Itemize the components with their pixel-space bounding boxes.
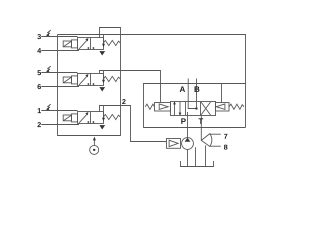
enclosure valve block left — [58, 35, 121, 136]
wire V1 exhaust line with down arrow — [103, 35, 105, 44]
label A — [180, 86, 185, 92]
spring right DV — [229, 104, 244, 109]
valve body V1 — [78, 38, 104, 50]
line port 4 — [41, 50, 79, 52]
enclosure main valve right — [144, 84, 246, 128]
spring V3 — [104, 114, 121, 119]
DV centre square path B — [196, 102, 198, 109]
bolt electric V2 — [47, 66, 51, 71]
DV left square arrow down — [179, 102, 181, 114]
exhaust triangle V3 — [99, 125, 105, 129]
DV centre square P stub — [187, 112, 189, 116]
check valve CV box — [167, 139, 181, 149]
pilot box right — [216, 103, 230, 112]
pump P1 circle — [182, 138, 194, 150]
label P — [181, 118, 186, 124]
valve body V2 — [78, 74, 104, 86]
main valve DV 4/3 body — [171, 102, 216, 116]
exhaust triangle V2 — [99, 87, 105, 91]
label 5 port — [37, 70, 41, 75]
line port 3 — [41, 36, 77, 38]
wire P line to pump — [187, 116, 189, 138]
label 3 port — [37, 34, 41, 39]
wire measuring point with up arrow — [93, 140, 95, 146]
wire V2 output to left pilot — [100, 71, 161, 103]
label 4 port — [37, 48, 41, 53]
wire pilot supply top — [58, 35, 246, 128]
DV left square arrow up — [174, 104, 176, 116]
valve V3 3/2 solenoid valve — [41, 106, 166, 142]
blocked port ticks V2 — [87, 83, 89, 85]
flow arrow V1 — [79, 40, 87, 49]
valve V2 3/2 solenoid valve — [41, 71, 160, 103]
label 8 — [224, 145, 228, 150]
label 1 port — [38, 108, 41, 113]
flow arrow V2 — [79, 76, 87, 85]
label 2 output — [122, 99, 125, 104]
wire cone drain to tank — [205, 146, 207, 167]
valve body V3 — [78, 112, 104, 124]
solenoid coil V3 — [63, 115, 71, 121]
check valve triangle — [169, 140, 178, 146]
junction dot — [195, 107, 197, 109]
wire port A — [187, 79, 189, 102]
label B — [195, 86, 200, 92]
wire port B — [196, 79, 198, 102]
wire suction second — [195, 147, 197, 166]
DV right square cross arrows — [201, 102, 211, 115]
pump flow triangle — [185, 138, 191, 142]
exhaust triangle V1 — [99, 51, 105, 55]
wire V3 output port 2 to check valve — [100, 106, 167, 142]
label 2 port — [37, 122, 40, 127]
label T — [199, 118, 204, 124]
wire V1 output jog over enclosure corner — [100, 28, 121, 38]
flow arrow V3 — [79, 114, 87, 123]
line port 6 — [41, 86, 79, 88]
blocked port ticks V3 — [87, 121, 89, 123]
blocked port ticks V1 — [87, 47, 89, 49]
line port 5 — [41, 72, 77, 74]
label 6 port — [37, 84, 40, 89]
wire T line to cone — [200, 116, 202, 141]
solenoid coil V1 — [63, 41, 71, 47]
tank — [181, 161, 214, 167]
pilot box left — [155, 103, 171, 112]
leader line 7 — [210, 133, 221, 135]
leader line 8 — [210, 145, 221, 147]
wire right pilot supply — [221, 84, 223, 103]
DV centre square path A to junction — [188, 102, 196, 109]
spring V1 — [104, 40, 121, 45]
line port 2 — [41, 124, 79, 126]
wire pump suction — [187, 149, 189, 166]
measuring point circle — [90, 145, 99, 154]
solenoid coil V2 — [63, 77, 71, 83]
bolt electric V1 — [47, 30, 51, 35]
label 7 — [224, 134, 227, 139]
spring V2 — [104, 76, 121, 81]
wire V3 exhaust line with down arrow — [103, 106, 105, 118]
valve V1 3/2 solenoid valve — [41, 28, 120, 56]
spring left DV — [145, 104, 154, 109]
cone symbol — [201, 134, 212, 147]
bolt electric V3 — [47, 104, 51, 109]
line port 1 — [41, 110, 77, 112]
wire V2 exhaust line with down arrow — [103, 71, 105, 80]
measuring point dot — [93, 149, 95, 151]
